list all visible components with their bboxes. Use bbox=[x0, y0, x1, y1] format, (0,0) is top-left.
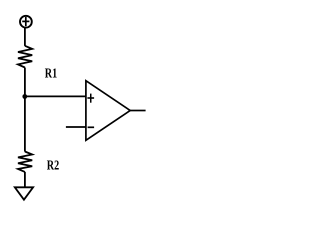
op-amp minus input marker bbox=[88, 126, 95, 128]
resistor R2 bbox=[18, 152, 32, 172]
resistor R1 bbox=[18, 46, 32, 68]
node junction dot bbox=[22, 94, 27, 99]
wire minus input stub bbox=[66, 126, 86, 128]
op-amp U1 bbox=[86, 81, 130, 141]
wire supply to R1 bbox=[24, 28, 26, 46]
wire op-amp output bbox=[130, 110, 145, 112]
supply terminal circle-plus bbox=[20, 16, 32, 28]
wire node to op-amp + input bbox=[25, 95, 86, 97]
op-amp plus input marker bbox=[87, 94, 94, 103]
svg-text:R2: R2 bbox=[47, 157, 60, 172]
wire R1 to node to R2 bbox=[24, 68, 26, 152]
svg-text:R1: R1 bbox=[45, 66, 58, 81]
wire R2 to ground bbox=[24, 172, 26, 187]
ground bbox=[15, 187, 33, 199]
